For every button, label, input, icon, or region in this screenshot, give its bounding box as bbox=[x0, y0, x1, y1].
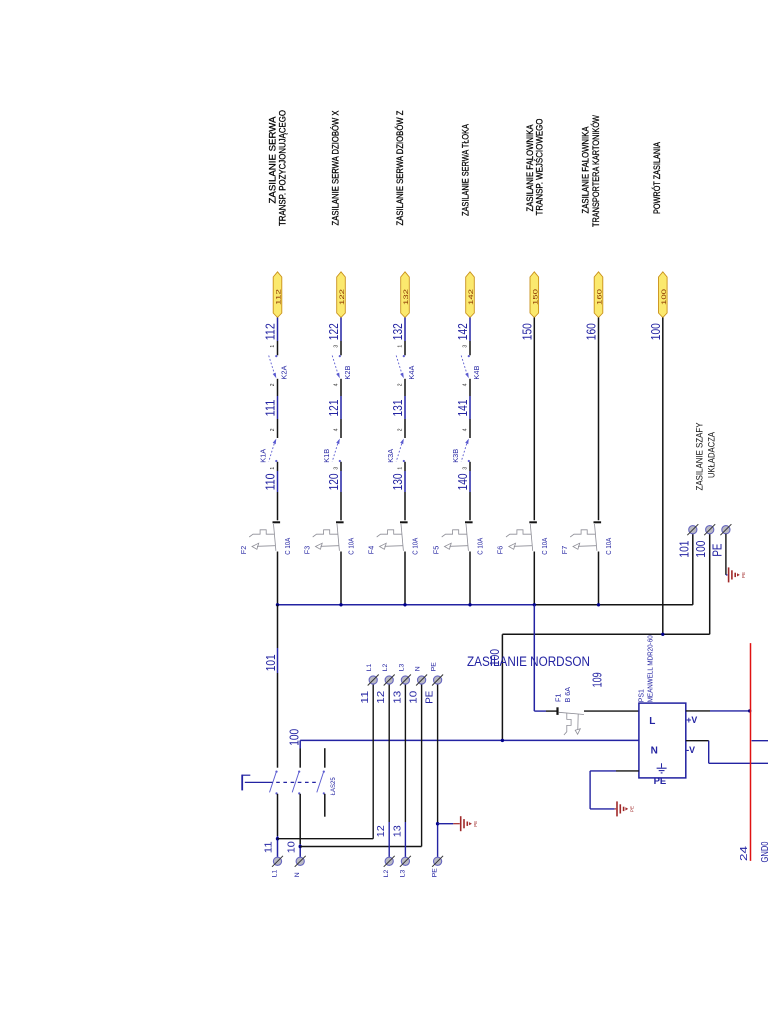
svg-text:L1: L1 bbox=[272, 870, 279, 878]
svg-text:112: 112 bbox=[276, 288, 283, 305]
svg-text:N: N bbox=[651, 746, 658, 757]
svg-text:TRANSPORTERA KARTONIKÓW: TRANSPORTERA KARTONIKÓW bbox=[591, 115, 601, 227]
svg-text:ZASILANIE FALOWNIKA: ZASILANIE FALOWNIKA bbox=[581, 126, 591, 214]
svg-text:ZASILANIE NORDSON: ZASILANIE NORDSON bbox=[467, 654, 590, 669]
svg-text:132: 132 bbox=[403, 288, 410, 305]
svg-text:4: 4 bbox=[463, 428, 469, 431]
svg-text:GND0: GND0 bbox=[759, 841, 768, 862]
svg-text:142: 142 bbox=[456, 323, 470, 340]
svg-text:F1: F1 bbox=[554, 694, 563, 702]
svg-text:K3A: K3A bbox=[386, 449, 395, 463]
svg-text:C 10A: C 10A bbox=[283, 538, 292, 555]
svg-text:PE: PE bbox=[629, 806, 634, 812]
svg-text:1: 1 bbox=[270, 467, 276, 470]
svg-text:140: 140 bbox=[456, 473, 470, 490]
svg-text:+V: +V bbox=[686, 715, 697, 725]
svg-text:131: 131 bbox=[391, 399, 405, 416]
svg-text:L3: L3 bbox=[399, 870, 406, 878]
svg-text:L3: L3 bbox=[398, 664, 405, 672]
svg-text:120: 120 bbox=[327, 473, 341, 490]
svg-text:C 10A: C 10A bbox=[540, 538, 549, 555]
svg-text:2: 2 bbox=[270, 383, 276, 386]
svg-text:ŁAS25: ŁAS25 bbox=[330, 777, 337, 795]
svg-text:150: 150 bbox=[532, 288, 539, 305]
svg-text:PE: PE bbox=[741, 572, 746, 578]
svg-text:F3: F3 bbox=[302, 546, 311, 554]
svg-text:121: 121 bbox=[327, 399, 341, 416]
svg-text:F4: F4 bbox=[366, 546, 375, 554]
svg-text:L1: L1 bbox=[366, 664, 373, 672]
svg-text:ZASILANIE SERWA DZIOBÓW Z: ZASILANIE SERWA DZIOBÓW Z bbox=[395, 110, 405, 225]
svg-text:ZASILANIE SERWA TŁOKA: ZASILANIE SERWA TŁOKA bbox=[461, 123, 471, 216]
svg-text:K1A: K1A bbox=[258, 449, 267, 463]
svg-text:1: 1 bbox=[270, 345, 276, 348]
svg-text:101: 101 bbox=[264, 654, 278, 671]
svg-text:11: 11 bbox=[360, 690, 371, 704]
svg-text:100: 100 bbox=[287, 729, 301, 746]
svg-text:F6: F6 bbox=[496, 546, 505, 554]
svg-text:24: 24 bbox=[738, 846, 750, 861]
svg-text:141: 141 bbox=[456, 399, 470, 416]
svg-text:13: 13 bbox=[392, 690, 403, 704]
svg-text:4: 4 bbox=[334, 428, 340, 431]
svg-text:3: 3 bbox=[463, 467, 469, 470]
svg-text:PE: PE bbox=[431, 662, 438, 672]
svg-text:100: 100 bbox=[694, 541, 708, 558]
svg-text:12: 12 bbox=[376, 690, 387, 704]
svg-text:B 6A: B 6A bbox=[563, 687, 572, 703]
svg-text:142: 142 bbox=[468, 288, 475, 305]
svg-text:UKŁADACZA: UKŁADACZA bbox=[706, 431, 716, 478]
svg-text:ZASILANIE SZAFY: ZASILANIE SZAFY bbox=[694, 423, 704, 491]
svg-text:160: 160 bbox=[597, 288, 604, 305]
svg-text:132: 132 bbox=[391, 323, 405, 340]
svg-text:11: 11 bbox=[264, 841, 275, 853]
svg-text:ZASILANIE SERWA: ZASILANIE SERWA bbox=[268, 116, 278, 204]
svg-text:4: 4 bbox=[334, 383, 340, 386]
svg-text:100: 100 bbox=[649, 323, 663, 340]
svg-text:1: 1 bbox=[398, 345, 404, 348]
svg-text:2: 2 bbox=[398, 383, 404, 386]
svg-text:12: 12 bbox=[376, 825, 387, 837]
svg-text:POWRÓT ZASILANIA: POWRÓT ZASILANIA bbox=[652, 141, 662, 214]
svg-text:3: 3 bbox=[463, 345, 469, 348]
svg-text:109: 109 bbox=[590, 672, 604, 687]
svg-text:N: N bbox=[294, 872, 301, 877]
svg-text:PE: PE bbox=[473, 821, 478, 827]
svg-text:3: 3 bbox=[334, 467, 340, 470]
svg-text:ZASILANIE FALOWNIKA: ZASILANIE FALOWNIKA bbox=[525, 124, 535, 212]
svg-text:4: 4 bbox=[463, 383, 469, 386]
svg-text:C 10A: C 10A bbox=[347, 538, 356, 555]
svg-text:K2A: K2A bbox=[280, 365, 289, 379]
svg-text:L: L bbox=[649, 716, 655, 727]
svg-text:100: 100 bbox=[661, 288, 668, 305]
svg-text:F2: F2 bbox=[239, 546, 248, 554]
svg-text:-V: -V bbox=[686, 745, 695, 755]
svg-text:MEANWELL MDR20-60: MEANWELL MDR20-60 bbox=[647, 635, 654, 702]
svg-text:L2: L2 bbox=[382, 664, 389, 672]
svg-text:F5: F5 bbox=[431, 546, 440, 554]
svg-text:F7: F7 bbox=[560, 546, 569, 554]
svg-text:111: 111 bbox=[264, 399, 278, 416]
svg-text:TRANSP. WEJŚCIOWEGO: TRANSP. WEJŚCIOWEGO bbox=[534, 119, 545, 216]
svg-text:L2: L2 bbox=[383, 870, 390, 878]
svg-text:K1B: K1B bbox=[322, 449, 331, 463]
svg-text:K2B: K2B bbox=[343, 365, 352, 379]
svg-text:1: 1 bbox=[398, 467, 404, 470]
svg-text:2: 2 bbox=[270, 428, 276, 431]
svg-text:13: 13 bbox=[392, 825, 403, 837]
svg-text:C 10A: C 10A bbox=[411, 538, 420, 555]
svg-text:C 10A: C 10A bbox=[476, 538, 485, 555]
svg-text:PE: PE bbox=[432, 868, 439, 878]
svg-text:K3B: K3B bbox=[451, 449, 460, 463]
svg-text:130: 130 bbox=[391, 473, 405, 490]
svg-text:PE: PE bbox=[711, 544, 725, 557]
svg-text:150: 150 bbox=[520, 323, 534, 340]
svg-text:110: 110 bbox=[264, 473, 278, 490]
svg-text:PS1: PS1 bbox=[639, 689, 646, 702]
svg-text:N: N bbox=[415, 666, 422, 671]
svg-text:122: 122 bbox=[327, 323, 341, 340]
svg-text:TRANSP. POZYCJONUJĄCEGO: TRANSP. POZYCJONUJĄCEGO bbox=[277, 110, 287, 226]
svg-text:C 10A: C 10A bbox=[604, 538, 613, 555]
svg-text:112: 112 bbox=[264, 323, 278, 340]
svg-text:K4B: K4B bbox=[472, 365, 481, 379]
svg-text:10: 10 bbox=[409, 690, 420, 704]
svg-text:K4A: K4A bbox=[407, 365, 416, 379]
svg-text:3: 3 bbox=[334, 345, 340, 348]
svg-text:PE: PE bbox=[654, 776, 667, 787]
svg-text:122: 122 bbox=[339, 288, 346, 305]
svg-text:ZASILANIE SERWA DZIOBÓW X: ZASILANIE SERWA DZIOBÓW X bbox=[331, 111, 341, 226]
svg-text:2: 2 bbox=[398, 428, 404, 431]
svg-text:160: 160 bbox=[585, 323, 599, 340]
svg-text:PE: PE bbox=[425, 690, 436, 703]
svg-text:101: 101 bbox=[678, 541, 692, 558]
svg-text:10: 10 bbox=[286, 841, 297, 853]
